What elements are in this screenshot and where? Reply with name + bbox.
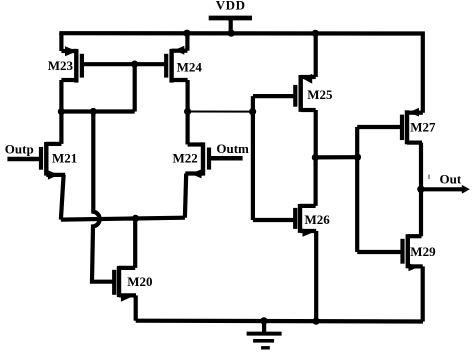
wire M21 source down to tail (61, 175, 64, 220)
wire Out (421, 187, 463, 191)
node dot VDD at rail (228, 30, 235, 37)
wire M20 source down to ground rail (134, 295, 138, 320)
transistor M29 (NMOS, gate on left) (403, 234, 423, 271)
VDD stem wire (229, 18, 233, 33)
wire M29 gate (357, 250, 402, 254)
wire drain node to output gates (316, 155, 358, 159)
wire M25 drain down (314, 110, 318, 157)
wire M23 source to rail (59, 33, 63, 51)
node dot M25/M26 drains (312, 154, 319, 161)
transistor M21 (NMOS, gate on left) (41, 142, 65, 180)
wire M25 gate (253, 94, 295, 98)
svg-text:M25: M25 (307, 87, 333, 102)
wire node to M20 gate with hop (92, 112, 114, 282)
svg-text:Outp: Outp (5, 141, 34, 156)
wire M27 gate (357, 125, 402, 129)
node dot tail at M20 drain (132, 215, 139, 222)
wire M27 gate to M29 gate vertical (355, 127, 359, 252)
transistor M23 (PMOS, gate on right) (61, 46, 82, 82)
svg-text:Outm: Outm (216, 141, 249, 156)
wire Outp input (7, 157, 41, 162)
wire M23 drain down to node and M21 drain (59, 80, 63, 144)
node dot M25 source at rail (312, 30, 319, 37)
svg-text:M29: M29 (410, 244, 436, 259)
node dot on M25/M26 gate vert (249, 108, 256, 115)
speck (428, 175, 430, 180)
node dot M24 source at rail (183, 30, 190, 37)
node dot gate junction (131, 61, 138, 68)
node dot on M27/M29 gate vert (354, 154, 361, 161)
svg-text:VDD: VDD (216, 0, 246, 13)
wire M20 drain up to tail (133, 218, 137, 268)
wire M22 source down to tail (185, 174, 186, 218)
wire M23-M24 gates (82, 62, 166, 66)
svg-text:Out: Out (440, 171, 462, 186)
transistor M25 (PMOS, gate on left) (295, 74, 315, 112)
node dot M24/M22 drain (184, 108, 191, 115)
top VDD rail wire (59, 33, 423, 113)
transistor M24 (PMOS, gate on left) (166, 46, 187, 83)
node dot hop-wire tap (90, 108, 97, 115)
wire M24 source to rail (185, 33, 189, 50)
wire M29 source down to ground rail (421, 266, 425, 321)
wire M26 gate (253, 218, 295, 222)
svg-text:M24: M24 (177, 59, 203, 74)
transistor M22 (NMOS, gate on right) (185, 142, 209, 178)
wire M29 drain up to out (419, 189, 423, 236)
wire M25 gate to M26 gate vertical (251, 96, 255, 220)
svg-text:M23: M23 (48, 58, 74, 73)
wire M24 drain node to gate vert (thin) (188, 111, 253, 113)
svg-text:M20: M20 (127, 274, 152, 289)
wire gate junction down (133, 64, 137, 111)
svg-text:M22: M22 (173, 150, 198, 165)
wire M25 source to rail (314, 33, 318, 77)
ground symbol (247, 321, 282, 348)
node dot M26 source at rail (313, 318, 320, 325)
node dot ground tap (260, 317, 267, 324)
svg-text:M26: M26 (305, 212, 331, 227)
wire diode node horizontal (61, 109, 134, 113)
node dot at M23 drain (58, 108, 65, 115)
bottom ground rail wire (136, 319, 423, 324)
arrow Out (462, 185, 470, 194)
svg-text:M21: M21 (52, 150, 77, 165)
wire M24 drain down to M22 drain (186, 80, 190, 145)
wire M26 drain up (314, 157, 318, 206)
transistor M27 (PMOS, gate on left) (402, 108, 423, 145)
transistor M20 (NMOS, gate on left) (114, 266, 136, 302)
VDD bar (209, 16, 252, 21)
wire tail node (61, 218, 185, 220)
wire M27 drain down to out (419, 143, 423, 190)
node Out dot (417, 186, 424, 193)
wire Outm input (209, 156, 243, 161)
svg-text:M27: M27 (410, 120, 436, 135)
wire M26 source down to ground rail (314, 231, 318, 321)
transistor M26 (NMOS, gate on left) (295, 204, 316, 237)
